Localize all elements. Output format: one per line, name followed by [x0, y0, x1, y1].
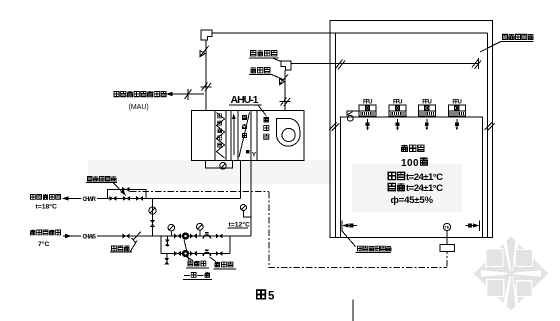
filter zigzag (medium-efficiency filter) [217, 113, 225, 159]
svg-text:t=24±1°C: t=24±1°C [406, 183, 443, 194]
isolation valve [190, 251, 197, 256]
flow tick on fresh air drop [201, 86, 212, 88]
return air duct line (plenum ceiling) [212, 32, 488, 34]
supply fan scroll [277, 119, 300, 147]
thermometer on riser B [240, 204, 246, 210]
check valve [203, 235, 210, 239]
label 冷冻水供水 [30, 230, 35, 235]
label 消声弯头 [250, 50, 256, 56]
valve [216, 234, 223, 239]
FFU 4 supply arrow [456, 119, 458, 130]
flex connection tick on supply riser [280, 101, 291, 103]
pipeline pump [182, 250, 189, 257]
FFU 1 supply arrow [367, 119, 369, 130]
CHWR arrow out [63, 197, 71, 199]
plenum inner wall right [487, 33, 489, 237]
drain trap [220, 163, 227, 170]
svg-text:ф=45±5%: ф=45±5% [391, 195, 434, 206]
lower pump branch [161, 253, 230, 255]
room label winter temp [388, 183, 395, 190]
FFU 2 supply arrow [397, 119, 399, 130]
fire damper on supply riser [280, 75, 289, 85]
svg-text:7°C: 7°C [38, 240, 49, 248]
cleanroom box [341, 117, 483, 237]
pressure sensor at plenum left [347, 111, 359, 115]
pump branch split [160, 236, 162, 254]
label 过滤器 [111, 246, 116, 251]
svg-text:(MAU): (MAU) [129, 104, 149, 111]
label 回风静压箱 [502, 34, 507, 39]
valve on CHWS [122, 233, 129, 238]
coil supply riser B [250, 160, 252, 236]
return grille arrow right [479, 221, 481, 232]
figure caption 图5 [257, 290, 266, 299]
label 送风机 (vertical) [264, 117, 269, 123]
label 防火阀 [250, 67, 256, 73]
label 单层百叶风口 [342, 231, 356, 247]
valve [216, 251, 223, 256]
label 电动二通阀 [87, 176, 92, 181]
drain stub + valve (upper) [166, 236, 168, 247]
svg-text:AHU-1: AHU-1 [231, 94, 259, 106]
pipeline pump [182, 232, 189, 239]
AHU casing [192, 111, 305, 161]
isolation valve [174, 251, 181, 256]
watermark logo diamond [474, 237, 549, 311]
supply duct riser to elbow 2 [284, 70, 286, 111]
temperature controller box [440, 245, 455, 252]
air arrow in section [233, 116, 235, 155]
wall flow ticks left [329, 123, 337, 131]
valve (vertical) [150, 220, 155, 227]
balancing valve [149, 207, 156, 214]
CHWR pipe [71, 197, 81, 199]
svg-text:t=12°C: t=12°C [229, 220, 251, 228]
condensate drain pan [206, 160, 233, 168]
valve on CHWR [136, 196, 143, 201]
svg-text:t=18°C: t=18°C [36, 203, 58, 211]
silencer elbow 2 [281, 61, 291, 70]
svg-text:t=24±1°C: t=24±1°C [406, 172, 443, 183]
check valve [203, 252, 210, 256]
room label 洁净室 [401, 145, 407, 152]
svg-text:5: 5 [268, 291, 275, 303]
drain stub + valve (lower) [166, 254, 168, 265]
FFU 3 supply arrow [426, 119, 428, 130]
label 管道泵 [188, 261, 193, 266]
pressure gauge 1 [168, 224, 175, 231]
CHWS pipe / pump suction header [71, 235, 81, 237]
bypass line around electric valve [108, 189, 147, 198]
cooling coil section diagonal [239, 113, 250, 158]
faint scan tint blocks [88, 160, 462, 212]
supply duct into plenum [291, 63, 479, 65]
AHU section dividers [214, 111, 216, 161]
label 止回阀 [215, 262, 220, 267]
label 一用一备 [184, 275, 190, 276]
svg-text:100: 100 [401, 158, 419, 169]
room label summer temp [388, 172, 395, 179]
valve on CHWR [123, 196, 130, 201]
strainer [133, 232, 141, 241]
CHWS arrow in [63, 235, 71, 237]
balance line between CHWR and CHWS [152, 198, 154, 236]
pressure gauge 2 [197, 223, 204, 230]
label 表冷段 (vertical) [242, 115, 246, 119]
isolation valve [174, 233, 181, 238]
control signal line (dash-dot) TE to valve [130, 191, 447, 267]
isolation valve [190, 233, 197, 238]
svg-text:CHWS: CHWS [83, 235, 97, 241]
label 中效过滤段 (vertical) [218, 114, 222, 118]
temperature sensor TE [443, 223, 450, 230]
border fold line bottom [352, 300, 354, 321]
branch rejoin [229, 236, 231, 254]
coil return riser A [240, 160, 242, 198]
tick where duct crosses plenum wall [336, 60, 343, 69]
label 冷冻水回水 [30, 194, 35, 199]
label 新风来自新风机组 [114, 91, 119, 96]
end arrow of supply duct [478, 58, 480, 69]
fresh air drop duct [205, 40, 207, 111]
svg-text:CHWR: CHWR [83, 197, 97, 203]
valve on CHWR [109, 196, 116, 201]
fresh air inlet line from MAU [166, 93, 204, 95]
svg-text:TE: TE [444, 225, 449, 230]
damper on fresh air drop [200, 46, 209, 57]
return grille arrow left [341, 221, 343, 232]
electric two-way valve on bypass [122, 187, 130, 192]
wall flow ticks right [485, 123, 493, 131]
svg-text:Y: Y [252, 152, 257, 159]
outer enclosure box [330, 21, 493, 238]
silencer elbow 1 (top-left) [201, 30, 212, 40]
plenum inner wall left [335, 33, 337, 237]
